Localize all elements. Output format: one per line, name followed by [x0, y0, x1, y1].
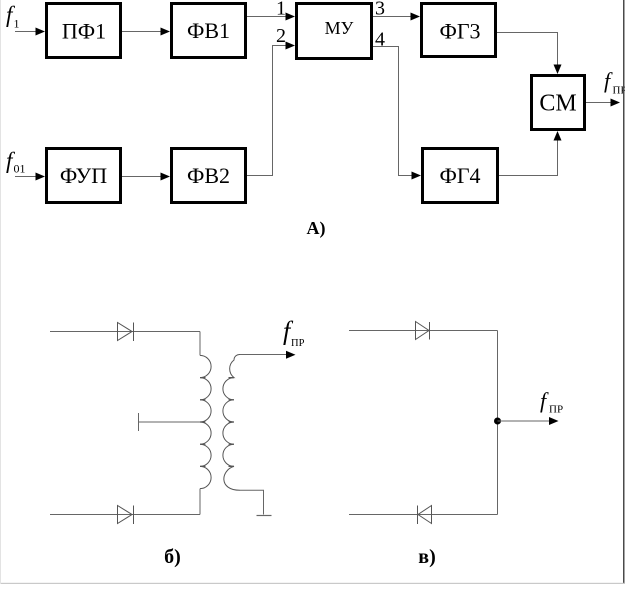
svg-text:ФГ3: ФГ3 [439, 19, 480, 44]
wire ФУП to ФВ2 [122, 173, 170, 181]
transformer T1 secondary winding [223, 354, 240, 490]
label f01 input [6, 148, 26, 176]
node dot fпр [494, 418, 501, 425]
center tap wire [139, 421, 201, 423]
wire МУ to ФГ4 node 4 [373, 47, 421, 180]
wire bottom input б [50, 514, 200, 516]
wire transformer primary bottom [199, 489, 201, 515]
diode VD1 [118, 323, 134, 342]
wire output arrow в [498, 417, 559, 425]
transformer T1 primary winding [200, 355, 211, 488]
center tap terminal [138, 413, 140, 431]
svg-text:А): А) [307, 218, 326, 239]
wire ФГ4 to СМ [499, 131, 562, 176]
page left border [0, 0, 1, 584]
block МУ [297, 4, 372, 59]
block ПФ1 [47, 4, 121, 58]
svg-text:ПР: ПР [549, 404, 563, 416]
svg-text:ФВ1: ФВ1 [187, 18, 230, 43]
wire f1 to ПФ1 [15, 28, 45, 36]
svg-text:ПР: ПР [291, 338, 305, 349]
wire bottom input в [349, 514, 498, 516]
block ФГ4 [423, 149, 498, 203]
label fпр б [283, 317, 305, 350]
svg-text:ФУП: ФУП [60, 163, 107, 188]
ground [257, 515, 272, 517]
diode VD3 [416, 322, 430, 340]
block ФГ3 [422, 4, 496, 57]
svg-text:СМ: СМ [539, 91, 576, 117]
label fпр output of СМ [604, 68, 625, 97]
svg-text:3: 3 [375, 0, 385, 20]
block ФВ1 [172, 4, 246, 58]
label fпр в [540, 388, 563, 416]
label f1 input [6, 2, 20, 31]
svg-text:ФВ2: ФВ2 [187, 163, 230, 188]
wire to transformer primary top [199, 332, 201, 356]
wire top input в [349, 330, 498, 332]
wire secondary bottom to ground [240, 490, 264, 514]
wire ФВ1 to МУ node 1 [247, 13, 295, 21]
wire vertical в [497, 331, 499, 515]
page right border [623, 0, 625, 584]
svg-text:в): в) [418, 546, 435, 568]
svg-text:01: 01 [14, 162, 26, 176]
svg-text:4: 4 [375, 29, 385, 51]
wire МУ to ФГ3 node 3 [373, 13, 420, 21]
diode VD2 [118, 506, 134, 525]
svg-text:ПФ1: ПФ1 [62, 19, 106, 44]
svg-text:1: 1 [276, 0, 286, 20]
block ФУП [47, 149, 121, 203]
block СМ [532, 76, 585, 130]
wire secondary top output fпр [240, 351, 296, 359]
svg-text:1: 1 [14, 17, 20, 31]
diode VD4 [418, 506, 432, 525]
svg-text:МУ: МУ [325, 18, 354, 38]
wire ПФ1 to ФВ1 [122, 28, 170, 36]
svg-text:2: 2 [276, 25, 286, 47]
wire ФВ2 to МУ node 2 [247, 42, 295, 176]
block ФВ2 [172, 149, 246, 203]
wire ФГ3 to СМ [497, 33, 562, 75]
wire f01 to ФУП [15, 173, 45, 181]
page bottom border [0, 583, 625, 584]
svg-text:ФГ4: ФГ4 [439, 163, 480, 188]
wire top input б [50, 331, 200, 333]
svg-text:б): б) [164, 546, 181, 568]
wire СМ output fпр [586, 99, 620, 107]
